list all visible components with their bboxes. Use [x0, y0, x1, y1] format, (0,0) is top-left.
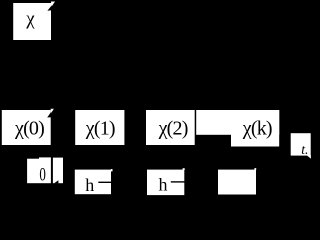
dash inside second h box [171, 181, 185, 183]
box chi (top-left input block) [13, 3, 51, 40]
svg-text:χ(1): χ(1) [85, 117, 115, 139]
arrowhead flag at chi box top-right [47, 2, 55, 11]
box h (second impulse-response block) [147, 168, 185, 195]
box chi(0) [2, 110, 51, 145]
svg-text:χ(0): χ(0) [14, 117, 44, 139]
svg-text:χ: χ [25, 9, 35, 30]
box chi(k) [231, 110, 279, 147]
svg-text:h: h [85, 175, 94, 195]
box chi(1) [75, 110, 124, 145]
box 0 (initial state) [27, 157, 51, 183]
dash inside first h box [98, 181, 111, 183]
box h (first impulse-response block) [75, 169, 113, 194]
box chi(2) [146, 110, 195, 145]
wide blank strip (ellipsis region) [196, 110, 279, 135]
svg-text:χ(k): χ(k) [242, 117, 272, 139]
svg-text:t.: t. [301, 142, 308, 157]
tab with arrowhead right of 0 box [53, 158, 63, 184]
arrowhead flag at t box bottom-right [307, 155, 311, 158]
arrowhead flag at chi(0) box top-right [47, 109, 54, 118]
svg-text:0: 0 [39, 166, 46, 186]
blank box (bottom-right block) [218, 168, 256, 194]
svg-text:h: h [159, 175, 168, 195]
box t (time axis label) [291, 133, 311, 155]
svg-text:χ(2): χ(2) [158, 117, 188, 139]
